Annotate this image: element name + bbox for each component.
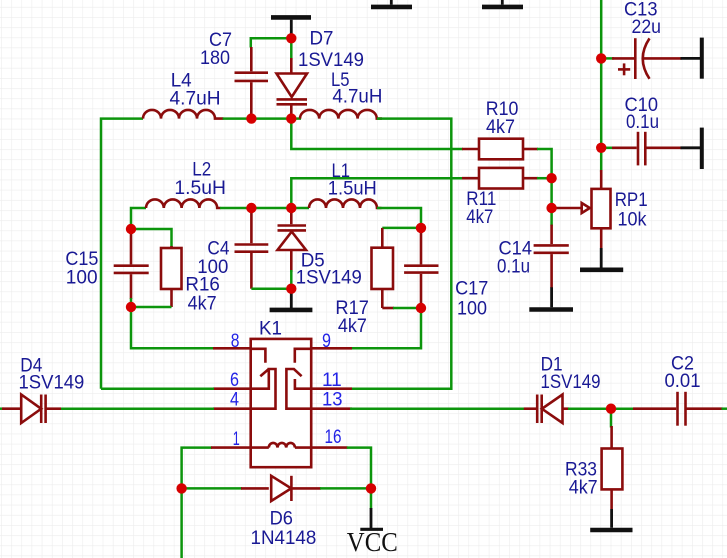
svg-text:4k7: 4k7 xyxy=(486,117,515,138)
wire: pin 1 row from VCC rail xyxy=(182,448,212,489)
relay K1 box xyxy=(251,339,312,467)
wire: L2 right to C4 node xyxy=(220,207,291,210)
svg-text:C17: C17 xyxy=(455,278,488,299)
node junction D7/L5 xyxy=(286,113,296,123)
node junction D6 left xyxy=(176,483,186,493)
K1 pin 16 lead xyxy=(311,446,347,449)
svg-text:1SV149: 1SV149 xyxy=(298,50,364,71)
wire: wiper arm to RP1 arrow xyxy=(552,207,582,210)
svg-text:4k7: 4k7 xyxy=(188,294,217,315)
wire: left rail top (L4 left) xyxy=(101,119,143,389)
node junction wiper xyxy=(546,203,556,213)
wire: L1 right down to R17/C17 top node xyxy=(377,208,421,228)
wire: VCC rail down xyxy=(180,488,183,558)
node junction D6 right / VCC xyxy=(366,483,376,493)
svg-text:4.7uH: 4.7uH xyxy=(332,87,382,108)
K1 pin 11 lead xyxy=(311,387,352,390)
node junction D5 bottom xyxy=(286,284,296,294)
svg-text:0.1u: 0.1u xyxy=(626,112,659,133)
K1 pin 4 lead xyxy=(213,407,251,410)
svg-text:100: 100 xyxy=(66,268,98,289)
wire: R16 bottom to C15 bottom node xyxy=(131,306,172,309)
svg-text:4k7: 4k7 xyxy=(338,316,367,337)
diode D4 (varactor 1SV149) xyxy=(0,395,61,424)
wire: top node to R17 xyxy=(382,227,421,230)
resistor R11 xyxy=(462,168,552,189)
wire: C15 node down to K1 pin 8 xyxy=(131,307,214,348)
wire: right rail from top to RP1 xyxy=(600,0,603,172)
svg-text:100: 100 xyxy=(457,298,487,319)
inductor L2 xyxy=(146,199,221,208)
K1 coil pin 1 lead inside xyxy=(251,446,269,449)
RP1 wiper arrow xyxy=(582,203,590,213)
svg-text:4.7uH: 4.7uH xyxy=(170,89,221,110)
resistor R33 xyxy=(602,409,623,509)
svg-text:1SV149: 1SV149 xyxy=(19,373,85,394)
svg-text:8: 8 xyxy=(231,331,240,352)
capacitor C4 xyxy=(235,208,269,289)
diode D6 (1N4148) xyxy=(241,476,321,501)
svg-text:VCC: VCC xyxy=(347,527,398,557)
svg-text:0.1u: 0.1u xyxy=(497,257,530,278)
wire: R17 bottom to bottom node xyxy=(382,307,394,310)
svg-text:1SV149: 1SV149 xyxy=(296,268,362,289)
wire: L5 right to vertical rail down to K1 pin 11 xyxy=(351,119,451,389)
wire: node to L5 xyxy=(291,117,301,120)
wire: L2 left down to C15 node xyxy=(131,208,146,229)
ground G3 (top, cropped) xyxy=(482,0,523,7)
node junction C15/R16 bottom xyxy=(126,302,136,312)
ground G2 (top, cropped) xyxy=(371,0,412,7)
wire: D1 to C2 node xyxy=(568,407,611,410)
node junction R10/R11 xyxy=(546,173,556,183)
node junction at D7 top xyxy=(286,33,296,43)
wire: C15 node to R16 top xyxy=(131,229,172,248)
wire: pin 16 down to VCC node xyxy=(347,448,371,489)
capacitor C13 (polarized 22u) xyxy=(601,38,681,79)
resistor R16 xyxy=(161,246,182,307)
capacitor C14 xyxy=(534,225,569,288)
wire: R11 node to wiper node xyxy=(550,178,553,208)
potentiometer RP1 xyxy=(592,170,611,248)
svg-text:6: 6 xyxy=(230,370,239,391)
svg-text:11: 11 xyxy=(322,370,342,391)
svg-text:1N4148: 1N4148 xyxy=(251,528,317,549)
ground G1 (top center) xyxy=(271,17,311,36)
ground G6 (RP1) xyxy=(580,248,623,270)
K1 coil xyxy=(269,443,295,448)
svg-text:D6: D6 xyxy=(270,509,293,530)
node junction D1/R33 xyxy=(606,404,616,414)
wire: ground G1 to C7/D7 node xyxy=(251,38,291,47)
wire: pin 4 row from D4 xyxy=(60,407,214,410)
wire: pin 6 from left rail xyxy=(101,387,214,390)
svg-text:16: 16 xyxy=(325,427,342,448)
wire: C4 bottom to D5 bottom node xyxy=(251,287,291,290)
ground G9 (R33) xyxy=(590,509,632,530)
K1 pin 6 lead xyxy=(213,387,251,390)
ground G7 (C13, rotated) xyxy=(681,38,702,79)
capacitor C7 xyxy=(235,47,269,119)
ground G4 (D5) xyxy=(270,289,313,310)
svg-text:1.5uH: 1.5uH xyxy=(174,178,226,199)
svg-text:22u: 22u xyxy=(632,17,662,38)
node junction C4 top xyxy=(246,203,256,213)
capacitor C17 xyxy=(404,228,438,308)
node junction R17/C17 bottom xyxy=(416,303,426,313)
K1 pin 13 lead xyxy=(311,407,352,410)
wire: D6 right lead wire xyxy=(320,487,371,490)
wire: D5 top node up and right to R11 xyxy=(291,178,463,208)
wire: bottom node down to K1 pin 9 xyxy=(351,308,421,348)
K1 pin 8 lead xyxy=(213,347,251,350)
svg-text:4k7: 4k7 xyxy=(569,478,598,499)
ground G5 (C14) xyxy=(529,287,573,309)
svg-text:0.01: 0.01 xyxy=(665,371,701,392)
svg-text:4: 4 xyxy=(230,390,239,411)
wire: pin 13 row to D1 xyxy=(350,407,525,410)
wire: wiper node down to C14 xyxy=(550,208,553,226)
K1 pin 1 lead xyxy=(211,446,251,449)
svg-text:9: 9 xyxy=(322,331,331,352)
svg-text:10k: 10k xyxy=(618,209,647,230)
node junction R17/C17 top xyxy=(416,223,426,233)
diode D7 (varactor 1SV149) xyxy=(277,41,308,119)
node junction C7/L4 xyxy=(246,113,256,123)
wire: L4/L5 node down and right to R10 xyxy=(291,119,463,149)
capacitor C10 xyxy=(601,132,681,166)
svg-text:R16: R16 xyxy=(185,275,220,296)
node junction D5 top xyxy=(286,203,296,213)
svg-text:1.5uH: 1.5uH xyxy=(328,179,377,200)
node junction C13 xyxy=(596,53,606,63)
K1 coil pin 16 lead inside xyxy=(295,446,311,449)
svg-text:1SV149: 1SV149 xyxy=(541,372,601,393)
inductor L5 xyxy=(300,110,382,119)
resistor R10 xyxy=(462,139,538,160)
node junction C10 xyxy=(596,143,606,153)
node junction C15/R16 top xyxy=(126,224,136,234)
wire: L4 to node xyxy=(223,117,292,120)
svg-text:180: 180 xyxy=(200,48,230,69)
capacitor C15 xyxy=(114,229,149,307)
svg-text:13: 13 xyxy=(322,390,343,411)
supply VCC symbol xyxy=(360,488,383,529)
resistor R17 xyxy=(372,228,394,308)
inductor L4 xyxy=(143,110,223,119)
svg-text:RP1: RP1 xyxy=(615,190,648,211)
wire: R10 right to R11 node xyxy=(537,149,552,178)
wire: D5 node to L1 xyxy=(291,207,309,210)
capacitor C2 xyxy=(611,392,727,426)
ground G8 (C10, rotated) xyxy=(681,128,702,169)
diode D5 (varactor 1SV149) xyxy=(278,208,307,289)
K1 left contact (pins 8/6/4) xyxy=(251,349,276,409)
diode D1 (varactor 1SV149) xyxy=(524,395,569,424)
K1 right contact (pins 9/11/13) xyxy=(286,349,311,409)
svg-text:D7: D7 xyxy=(310,28,334,49)
inductor L1 xyxy=(309,199,382,208)
svg-text:K1: K1 xyxy=(259,319,282,340)
svg-text:4k7: 4k7 xyxy=(466,207,493,228)
wire: D6 left lead wire xyxy=(182,487,242,490)
K1 pin 9 lead xyxy=(311,347,352,350)
svg-text:1: 1 xyxy=(233,429,240,450)
